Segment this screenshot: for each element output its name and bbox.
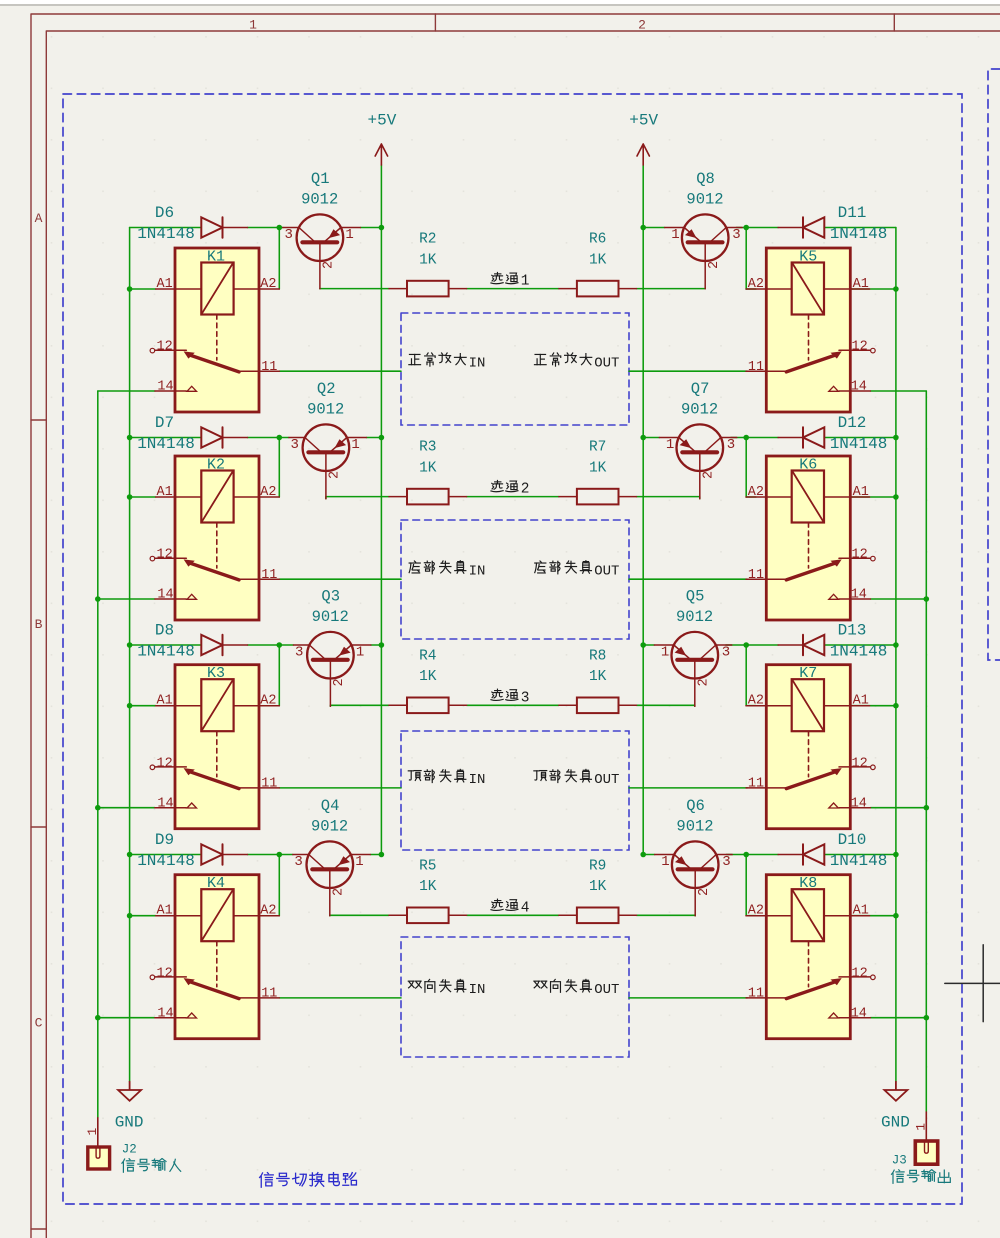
block label 双向失真OUT — [534, 979, 592, 992]
svg-text:1N4148: 1N4148 — [830, 435, 888, 453]
wire +5V left rail — [380, 165, 382, 855]
svg-text:14: 14 — [851, 380, 867, 395]
svg-text:11: 11 — [261, 987, 277, 1002]
diode D13 1N4148 — [778, 635, 824, 655]
svg-text:K4: K4 — [207, 875, 225, 892]
svg-text:3: 3 — [284, 227, 292, 243]
diode D6 1N4148 — [201, 217, 247, 237]
svg-text:1: 1 — [345, 227, 353, 243]
svg-text:A1: A1 — [853, 904, 869, 919]
svg-text:D12: D12 — [838, 414, 867, 432]
svg-text:2: 2 — [521, 482, 530, 498]
svg-text:K7: K7 — [799, 665, 817, 682]
junction (643,438) — [640, 435, 646, 441]
junction (643,645) — [640, 642, 646, 648]
svg-text:2: 2 — [328, 471, 343, 479]
wire row 2 left pin14 — [98, 598, 155, 600]
wire row 2 left Q base to resistor — [326, 497, 389, 499]
block label 顶部失真OUT — [534, 769, 592, 782]
wire row 4 select net — [467, 914, 559, 916]
wire row 3 left diode anode — [130, 644, 202, 646]
wire row 3 left diode cathode to Q base — [248, 644, 294, 646]
net label 选通4 — [491, 899, 518, 910]
svg-text:A2: A2 — [260, 694, 276, 709]
svg-text:Q5: Q5 — [686, 587, 705, 605]
junction (130,645) — [127, 642, 133, 648]
junction (381,438) — [379, 435, 385, 441]
block label 底部失真OUT — [535, 561, 592, 574]
wire left pin14 rail to J2 — [97, 391, 99, 1118]
svg-text:3: 3 — [732, 227, 740, 243]
svg-text:11: 11 — [261, 777, 277, 792]
wire row 4 left A1 — [130, 915, 156, 917]
svg-text:OUT: OUT — [594, 355, 619, 371]
svg-text:12: 12 — [852, 548, 868, 563]
wire row 4 left pin14 — [98, 1017, 155, 1019]
svg-text:14: 14 — [157, 1006, 173, 1021]
wire row 2 right pin14 — [871, 598, 927, 600]
junction (130,916) — [127, 913, 133, 919]
svg-text:C: C — [35, 1016, 43, 1031]
svg-text:9012: 9012 — [311, 817, 348, 835]
junction (896,289) — [893, 286, 899, 292]
wire row 1 left Q emitter to +5V — [360, 227, 381, 229]
power symbol +5V left — [375, 144, 387, 165]
diode D9 1N4148 — [201, 844, 247, 864]
wire row 4 right diode anode — [824, 854, 896, 856]
svg-text:12: 12 — [156, 756, 172, 771]
svg-text:D7: D7 — [155, 414, 174, 432]
svg-text:R6: R6 — [589, 232, 606, 248]
resistor R9 1K — [559, 908, 637, 924]
svg-text:11: 11 — [261, 568, 277, 583]
wire row 2 +5V to right Q emitter — [643, 437, 659, 439]
wire row 4 junction to right diode cathode — [746, 854, 778, 856]
svg-text:+5V: +5V — [629, 112, 658, 130]
svg-text:1: 1 — [666, 437, 674, 453]
wire right diode/A1 rail to GND — [895, 228, 897, 1082]
power symbol +5V right — [637, 144, 649, 165]
net label 选通2 — [491, 480, 518, 491]
svg-text:A1: A1 — [853, 694, 869, 709]
svg-text:11: 11 — [748, 360, 764, 375]
svg-text:4: 4 — [521, 900, 530, 916]
svg-text:R3: R3 — [419, 440, 436, 456]
svg-text:3: 3 — [727, 437, 735, 453]
svg-text:2: 2 — [702, 471, 717, 479]
svg-text:2: 2 — [697, 888, 712, 896]
block label 双向失真IN — [408, 979, 466, 992]
svg-text:11: 11 — [748, 568, 764, 583]
svg-text:D13: D13 — [838, 622, 867, 640]
junction (643,854) — [640, 852, 646, 858]
svg-text:1K: 1K — [419, 460, 437, 476]
wire right A2 drop row 1 — [745, 228, 747, 290]
wire row 2 left diode cathode to Q base — [248, 437, 289, 439]
junction (279,645) — [277, 642, 283, 648]
svg-text:1: 1 — [355, 854, 363, 870]
junction (98,599) — [95, 596, 101, 602]
svg-text:1N4148: 1N4148 — [830, 852, 888, 870]
svg-text:1: 1 — [521, 274, 530, 290]
junction (130,497) — [127, 494, 133, 500]
svg-text:1: 1 — [356, 645, 364, 661]
svg-text:OUT: OUT — [594, 982, 619, 998]
J3 label 信号输出 — [892, 1170, 951, 1184]
wire row 4 block to right pin11 — [629, 997, 747, 999]
junction (896,645) — [893, 642, 899, 648]
svg-text:3: 3 — [295, 645, 303, 661]
wire row 2 right Q collector to junction — [731, 437, 746, 439]
svg-text:11: 11 — [748, 987, 764, 1002]
wire row 2 right A2 — [746, 496, 756, 498]
wire row 1 right resistor to Q base — [637, 288, 706, 290]
junction (746,228) — [743, 225, 749, 231]
wire row 3 left A1 — [130, 705, 156, 707]
svg-text:2: 2 — [638, 18, 646, 33]
wire row 1 right A2 — [746, 288, 756, 290]
wire row 3 block to right pin11 — [629, 787, 747, 789]
svg-text:1N4148: 1N4148 — [137, 643, 195, 661]
resistor R8 1K — [559, 698, 637, 714]
wire row 4 left Q base to resistor — [330, 914, 389, 916]
svg-text:9012: 9012 — [312, 608, 349, 626]
wire row 1 left Q base to resistor — [320, 288, 389, 290]
function block dashed box row 3 — [401, 731, 629, 850]
relay K3 — [150, 665, 279, 829]
block label 顶部失真IN — [408, 769, 466, 782]
wire row 3 left A2 drop — [278, 645, 280, 706]
junction (279,228) — [277, 225, 283, 231]
wire row 1 right diode anode — [824, 227, 896, 229]
svg-text:9012: 9012 — [301, 190, 338, 208]
wire row 4 left diode anode — [130, 854, 202, 856]
svg-text:R4: R4 — [419, 648, 436, 664]
svg-text:Q7: Q7 — [691, 380, 710, 398]
svg-text:9012: 9012 — [676, 608, 713, 626]
svg-text:1: 1 — [661, 645, 669, 661]
transistor Q3 9012 (PNP) — [293, 632, 371, 706]
svg-text:+5V: +5V — [367, 112, 396, 130]
junction (896,854) — [893, 852, 899, 858]
svg-text:14: 14 — [157, 796, 173, 811]
svg-text:D6: D6 — [155, 204, 174, 222]
svg-text:IN: IN — [469, 982, 486, 998]
svg-text:A1: A1 — [156, 277, 172, 292]
svg-text:11: 11 — [748, 777, 764, 792]
wire row 3 right Q collector to junction — [726, 644, 746, 646]
wire row 2 block to right pin11 — [629, 578, 747, 580]
wire row 4 left A2 drop — [278, 855, 280, 916]
wire row 1 left A1 — [130, 288, 156, 290]
svg-text:A2: A2 — [748, 485, 764, 500]
svg-text:3: 3 — [722, 854, 730, 870]
svg-text:1K: 1K — [589, 460, 607, 476]
function block dashed box row 4 — [401, 937, 629, 1057]
svg-text:A2: A2 — [260, 485, 276, 500]
ground symbol left — [118, 1082, 141, 1101]
svg-text:A1: A1 — [156, 904, 172, 919]
junction (896,916) — [893, 913, 899, 919]
relay K2 — [150, 456, 279, 620]
svg-text:A1: A1 — [156, 694, 172, 709]
svg-text:A2: A2 — [748, 694, 764, 709]
svg-text:Q6: Q6 — [686, 797, 705, 815]
svg-text:1N4148: 1N4148 — [137, 852, 195, 870]
wire row 1 left A2 drop — [278, 228, 280, 290]
junction (926,808) — [924, 805, 930, 811]
wire row 3 right A1 — [850, 705, 896, 707]
resistor R7 1K — [559, 489, 637, 505]
svg-text:D8: D8 — [155, 622, 174, 640]
svg-text:OUT: OUT — [594, 772, 619, 788]
svg-text:R2: R2 — [419, 232, 436, 248]
wire row 4 right A2 — [746, 915, 756, 917]
svg-text:A2: A2 — [748, 904, 764, 919]
svg-text:A1: A1 — [156, 485, 172, 500]
svg-text:12: 12 — [156, 966, 172, 981]
svg-text:1: 1 — [661, 854, 669, 870]
svg-text:D9: D9 — [155, 831, 174, 849]
function block dashed box row 1 — [401, 313, 629, 425]
svg-text:GND: GND — [115, 1114, 144, 1132]
relay K4 — [150, 875, 279, 1039]
svg-text:R8: R8 — [589, 648, 606, 664]
wire right A2 drop row 2 — [745, 438, 747, 498]
svg-text:K6: K6 — [799, 457, 817, 474]
resistor R5 1K — [389, 908, 467, 924]
svg-text:1: 1 — [85, 1128, 100, 1136]
cursor crosshair — [945, 945, 1000, 1022]
junction (896,438) — [893, 435, 899, 441]
svg-text:K1: K1 — [207, 249, 225, 266]
svg-text:Q2: Q2 — [317, 380, 336, 398]
wire row 3 right A2 — [746, 705, 756, 707]
svg-text:A1: A1 — [853, 277, 869, 292]
svg-text:3: 3 — [722, 645, 730, 661]
svg-text:IN: IN — [469, 563, 486, 579]
wire row 1 right pin14 — [871, 390, 927, 392]
wire row 3 left Q emitter to +5V — [371, 644, 382, 646]
junction (130,438) — [127, 435, 133, 441]
svg-text:2: 2 — [332, 678, 347, 686]
sheet title 信号切换电路 — [260, 1173, 357, 1188]
wire row 2 junction to right diode cathode — [746, 437, 778, 439]
svg-text:1K: 1K — [419, 669, 437, 685]
wire row 2 right A1 — [850, 496, 896, 498]
wire row 2 right diode anode — [824, 437, 896, 439]
block label 正常放大IN — [409, 353, 466, 366]
wire row 4 left Q emitter to +5V — [370, 854, 381, 856]
secondary dashed box right — [988, 69, 1000, 660]
diode D10 1N4148 — [778, 844, 824, 864]
svg-text:Q4: Q4 — [321, 797, 340, 815]
svg-text:1K: 1K — [419, 252, 437, 268]
svg-text:1K: 1K — [419, 879, 437, 895]
junction (381,228) — [379, 225, 385, 231]
svg-text:9012: 9012 — [676, 817, 713, 835]
svg-text:1N4148: 1N4148 — [137, 225, 195, 243]
wire row 1 select net — [467, 288, 559, 290]
junction (926,599) — [924, 596, 930, 602]
junction (130,289) — [127, 286, 133, 292]
svg-text:1: 1 — [249, 18, 257, 33]
svg-text:14: 14 — [157, 380, 173, 395]
svg-text:OUT: OUT — [594, 563, 619, 579]
svg-text:Q1: Q1 — [311, 170, 330, 188]
junction (746,645) — [743, 642, 749, 648]
resistor R2 1K — [389, 281, 467, 297]
svg-text:1N4148: 1N4148 — [830, 643, 888, 661]
wire row 2 left diode anode — [130, 437, 202, 439]
wire row 4 left diode cathode to Q base — [248, 854, 293, 856]
transistor Q7 9012 (PNP) — [659, 424, 737, 498]
wire row 2 left A1 — [130, 496, 156, 498]
ground symbol right — [884, 1082, 907, 1101]
wire +5V right rail — [642, 165, 644, 855]
svg-text:12: 12 — [156, 548, 172, 563]
junction (381,645) — [379, 642, 385, 648]
wire row 4 right pin14 — [871, 1017, 927, 1019]
wire row 1 left diode cathode to Q base — [248, 227, 283, 229]
wire row 1 left pin14 — [98, 390, 155, 392]
svg-text:A: A — [35, 211, 43, 226]
resistor R6 1K — [559, 281, 637, 297]
wire row 1 left pin11 to block — [279, 370, 401, 372]
svg-text:A2: A2 — [748, 277, 764, 292]
transistor Q5 9012 (PNP) — [654, 632, 732, 706]
svg-text:9012: 9012 — [686, 190, 723, 208]
wire left diode/A1 rail to GND — [129, 228, 131, 1082]
transistor Q1 9012 (PNP) — [283, 214, 361, 288]
svg-text:K2: K2 — [207, 457, 225, 474]
block label 底部失真IN — [409, 561, 466, 574]
relay K7 — [746, 665, 875, 829]
svg-text:Q3: Q3 — [321, 587, 340, 605]
svg-text:J2: J2 — [122, 1142, 137, 1156]
svg-text:R7: R7 — [589, 440, 606, 456]
svg-text:14: 14 — [851, 588, 867, 603]
svg-text:K5: K5 — [799, 249, 817, 266]
svg-text:3: 3 — [521, 690, 530, 706]
transistor Q6 9012 (PNP) — [655, 841, 733, 915]
svg-text:11: 11 — [261, 360, 277, 375]
wire row 2 left Q emitter to +5V — [366, 437, 381, 439]
transistor Q8 9012 (PNP) — [665, 214, 743, 288]
svg-text:K8: K8 — [799, 875, 817, 892]
wire row 2 select net — [467, 496, 559, 498]
junction (896,706) — [893, 703, 899, 709]
function block dashed box row 2 — [401, 520, 629, 639]
svg-text:K3: K3 — [207, 665, 225, 682]
wire row 1 right Q collector to junction — [736, 227, 746, 229]
diode D12 1N4148 — [778, 427, 824, 447]
wire row 3 right diode anode — [824, 644, 896, 646]
net label 选通3 — [491, 689, 518, 700]
svg-text:14: 14 — [157, 588, 173, 603]
svg-text:9012: 9012 — [681, 400, 718, 418]
junction (130,706) — [127, 703, 133, 709]
relay K8 — [746, 875, 875, 1039]
wire row 3 left pin11 to block — [279, 787, 401, 789]
wire row 4 right resistor to Q base — [637, 914, 696, 916]
resistor R4 1K — [389, 698, 467, 714]
svg-text:1: 1 — [351, 437, 359, 453]
junction (746,438) — [743, 435, 749, 441]
svg-text:1K: 1K — [589, 669, 607, 685]
wire row 1 block to right pin11 — [629, 370, 747, 372]
svg-text:1: 1 — [914, 1123, 929, 1131]
svg-text:3: 3 — [290, 437, 298, 453]
svg-text:D11: D11 — [838, 204, 867, 222]
svg-text:J3: J3 — [892, 1154, 907, 1168]
junction (896,497) — [893, 494, 899, 500]
svg-text:A2: A2 — [260, 904, 276, 919]
wire row 2 left A2 drop — [278, 438, 280, 498]
wire row 3 right resistor to Q base — [637, 704, 695, 707]
wire row 4 +5V to right Q emitter — [643, 854, 655, 856]
transistor Q2 9012 (PNP) — [289, 424, 367, 498]
junction (279,854) — [277, 852, 283, 858]
connector J2 — [88, 1118, 110, 1169]
junction (926,1018) — [924, 1015, 930, 1021]
svg-text:12: 12 — [852, 340, 868, 355]
junction (381,854) — [379, 852, 385, 858]
svg-text:9012: 9012 — [307, 400, 344, 418]
wire row 4 left pin11 to block — [279, 997, 401, 999]
wire right pin14 rail to J3 — [925, 391, 927, 1112]
svg-text:1K: 1K — [589, 252, 607, 268]
wire row 3 left Q base to resistor — [330, 704, 389, 707]
svg-text:GND: GND — [881, 1114, 910, 1132]
resistor R3 1K — [389, 489, 467, 505]
junction (643,228) — [640, 225, 646, 231]
wire row 3 select net — [467, 704, 559, 706]
wire row 3 left pin14 — [98, 807, 155, 809]
svg-text:IN: IN — [469, 772, 486, 788]
svg-text:B: B — [35, 617, 43, 632]
svg-text:12: 12 — [852, 756, 868, 771]
svg-text:14: 14 — [851, 1006, 867, 1021]
J2 label 信号输入 — [122, 1159, 181, 1173]
svg-text:3: 3 — [294, 854, 302, 870]
svg-text:12: 12 — [156, 340, 172, 355]
junction (279,438) — [277, 435, 283, 441]
svg-text:1: 1 — [671, 227, 679, 243]
diode D7 1N4148 — [201, 427, 247, 447]
wire row 1 right A1 — [850, 288, 896, 290]
svg-text:2: 2 — [707, 261, 722, 269]
wire row 3 junction to right diode cathode — [746, 644, 778, 646]
wire row 3 right pin14 — [871, 807, 927, 809]
relay K5 — [746, 248, 875, 412]
relay K1 — [150, 248, 279, 412]
svg-text:14: 14 — [851, 796, 867, 811]
wire row 3 +5V to right Q emitter — [643, 644, 654, 646]
connector J3 — [915, 1112, 937, 1164]
svg-text:A1: A1 — [853, 485, 869, 500]
svg-text:R9: R9 — [589, 858, 606, 874]
svg-text:2: 2 — [697, 678, 712, 686]
wire row 1 +5V to right Q emitter — [643, 227, 665, 229]
junction (130,854) — [127, 852, 133, 858]
svg-text:IN: IN — [469, 355, 486, 371]
wire row 2 right resistor to Q base — [637, 497, 700, 499]
svg-text:1K: 1K — [589, 879, 607, 895]
wire row 2 left pin11 to block — [279, 578, 401, 580]
relay K6 — [746, 456, 875, 620]
wire row 4 right Q collector to junction — [726, 854, 746, 856]
